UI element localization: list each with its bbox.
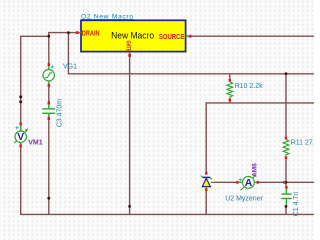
svg-text:U2 Myzener: U2 Myzener (225, 196, 263, 203)
svg-text:R10 2.2k: R10 2.2k (235, 83, 264, 90)
svg-text:AM6: AM6 (252, 163, 259, 177)
svg-text:GATE: GATE (124, 41, 131, 52)
svg-text:New Macro: New Macro (111, 31, 154, 42)
svg-text:VG1: VG1 (63, 64, 77, 71)
svg-text:C1 4.7n: C1 4.7n (293, 192, 300, 217)
svg-text:R11 27.: R11 27. (291, 140, 314, 147)
svg-text:A: A (245, 177, 253, 189)
svg-text:VM1: VM1 (28, 140, 43, 147)
svg-text:SOURCE: SOURCE (159, 34, 185, 41)
svg-text:C3 470m: C3 470m (56, 99, 63, 128)
svg-text:DRAIN: DRAIN (82, 30, 100, 37)
svg-text:V: V (17, 132, 24, 143)
